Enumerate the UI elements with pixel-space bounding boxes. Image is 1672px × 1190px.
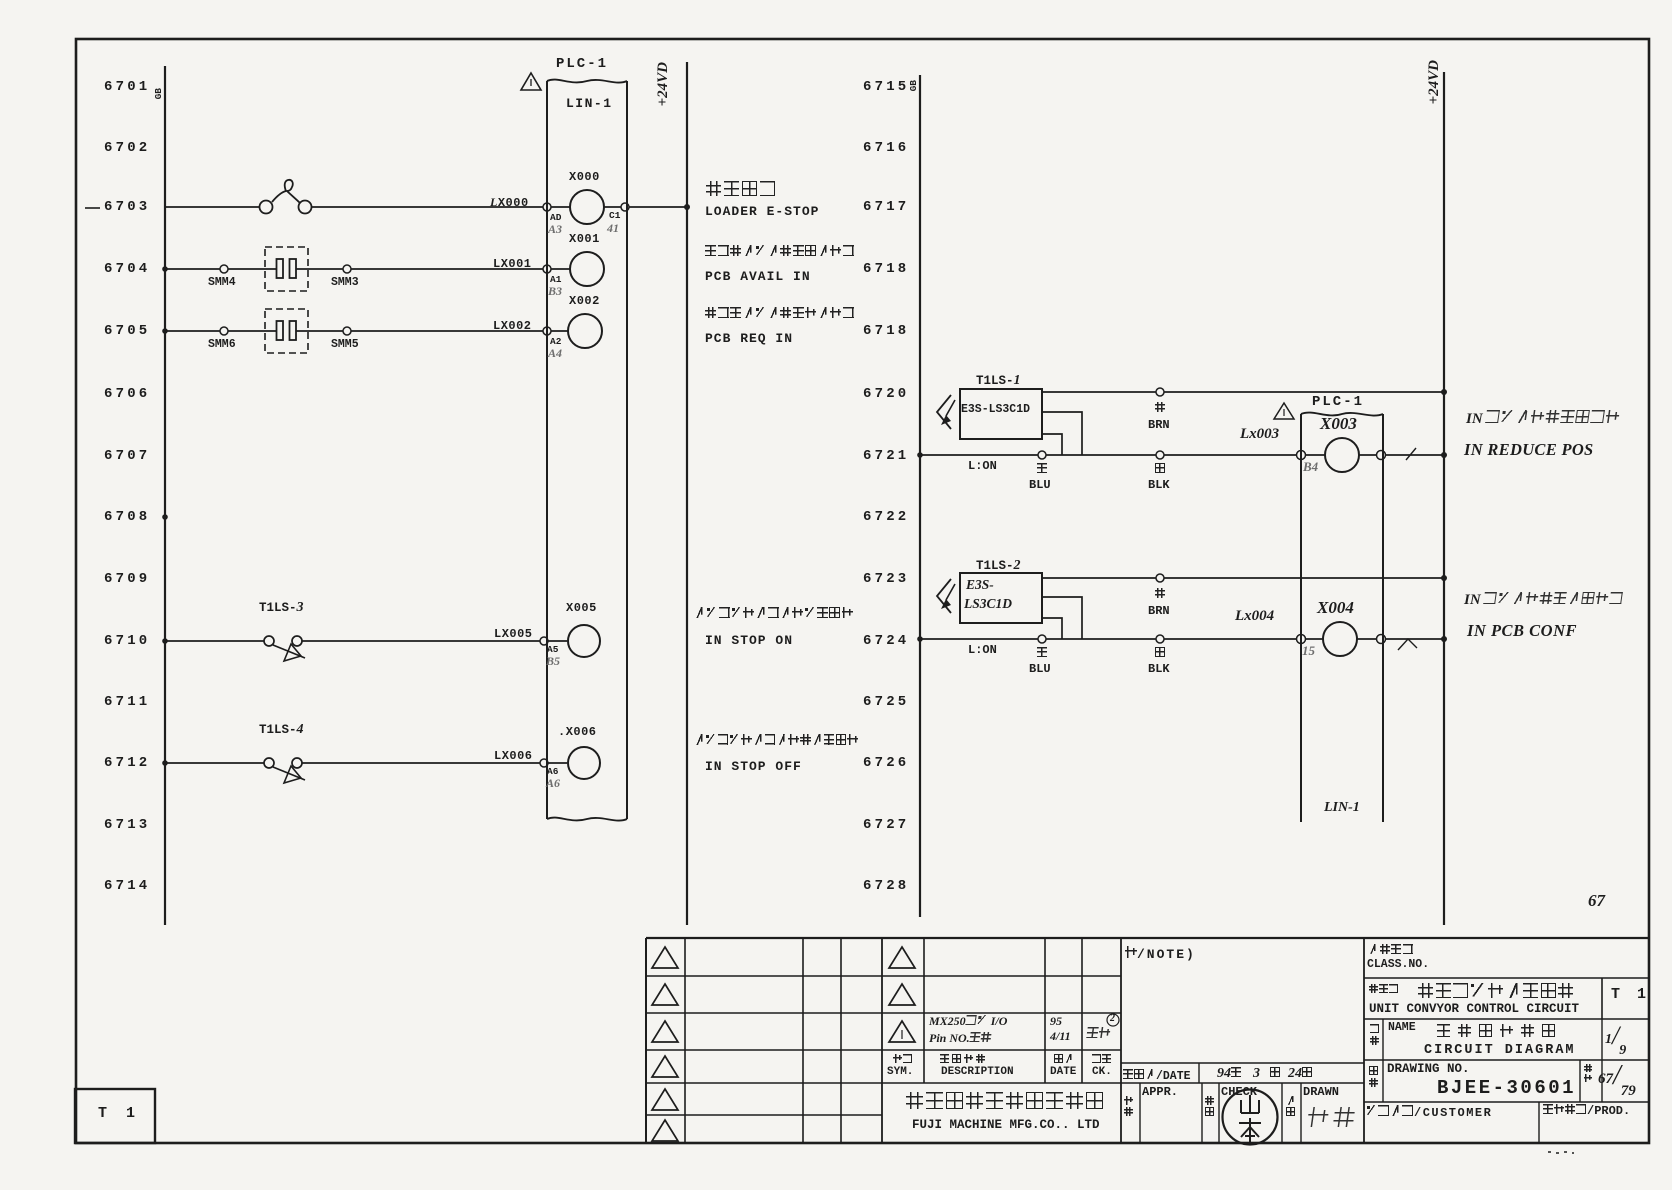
LS3C1D hw label box2 [964, 596, 1012, 612]
rev3 description hw line2 [929, 1031, 992, 1046]
connector pins 6705 [277, 321, 284, 340]
rung number 6713 [104, 817, 150, 833]
emergency stop contact circles [260, 201, 273, 214]
wire T1LS-4 to PLC [302, 762, 540, 764]
terminal label A2 [550, 336, 561, 347]
wire C1 to +24VD rail [629, 206, 687, 208]
LX003 hw label [1240, 426, 1279, 443]
T1LS-1 sensor box [960, 389, 1042, 439]
circuit diagram JP [1437, 1024, 1563, 1037]
terminal label A5 [547, 644, 558, 655]
header DESCRIPTION [941, 1066, 1014, 1078]
T1LS-2 label [976, 558, 1021, 574]
SMM4 label [208, 276, 236, 289]
junction dot 6723 rail [1441, 575, 1447, 581]
junction dot 6720 rail [1441, 389, 1447, 395]
wire rung 6703 left [165, 206, 260, 208]
right block row lines [1364, 977, 1649, 979]
terminal hw A3 [548, 222, 562, 237]
connector dashed box 6705 [265, 309, 308, 353]
dash left of 6703 [85, 207, 100, 209]
rung number 6715 [863, 79, 909, 95]
rev3 date hw [1050, 1014, 1071, 1044]
revision triangle A4 [652, 1056, 678, 1077]
rung number 6724 [863, 633, 909, 649]
T1 sheet label [98, 1105, 140, 1122]
wire SMM6 to connector [228, 330, 277, 332]
annotation IN PCB CONF [1467, 621, 1577, 641]
SMM6 label [208, 338, 236, 351]
terminal A2 circle [543, 327, 551, 335]
rung number 6702 [104, 140, 150, 156]
L:ON label 1 [968, 459, 997, 473]
JP cha 2 [1155, 588, 1167, 598]
company name JP [906, 1092, 1106, 1109]
date row value [1217, 1064, 1312, 1082]
terminal label AD [550, 212, 561, 223]
+24VD label right [1426, 60, 1443, 104]
terminal hw A4 [548, 346, 562, 361]
company name EN [912, 1118, 1100, 1132]
drawing number [1437, 1077, 1576, 1099]
wire X004 to terminal [1357, 638, 1377, 640]
junction dot 6705 [162, 328, 168, 334]
unit title JP [1418, 983, 1576, 998]
revision triangle A3 [652, 1021, 678, 1042]
rung number 6705 [104, 323, 150, 339]
left +24VD rail [686, 62, 688, 925]
label IN STOP OFF [705, 759, 802, 774]
sensor2 BLK wire [1042, 597, 1082, 639]
rung number 6722 [863, 509, 909, 525]
T1LS-3 limit switch [264, 636, 274, 646]
revision triangle B2 [889, 984, 915, 1005]
SMM3 contact circle [343, 265, 351, 273]
T1LS-4 label [259, 722, 304, 738]
LIN-1 label left [566, 96, 613, 111]
revision table A verticals [645, 938, 647, 1144]
sensor1 beam arrow [937, 395, 951, 429]
BRN terminal circle 6723 [1156, 574, 1164, 582]
wire to X000 coil [551, 206, 570, 208]
approval row verticals [1139, 1083, 1141, 1144]
SMM5 label [331, 338, 359, 351]
rung number 6710 [104, 633, 150, 649]
X003 hw label [1320, 414, 1357, 434]
CHECK label [1221, 1085, 1257, 1099]
sensor1 BLU wire [1042, 434, 1062, 455]
wire rung 6710 [165, 640, 264, 642]
PLC-1 box right ladder [1300, 414, 1302, 822]
JP annotation reduce pos [1466, 410, 1621, 428]
T1 cell divider [1601, 978, 1603, 1019]
terminal A1 circle [543, 265, 551, 273]
X004 coil circle [1323, 622, 1357, 656]
BRN label 2 [1148, 604, 1170, 618]
L:ON label 2 [968, 643, 997, 657]
hanko moto stroke [1239, 1118, 1261, 1142]
header kigou JP [893, 1054, 913, 1063]
B4 hw terminal [1303, 459, 1318, 475]
header tantou JP [1092, 1054, 1112, 1063]
note label [1125, 945, 1196, 963]
label LOADER E-STOP [705, 204, 819, 219]
BLU label 2 [1029, 662, 1051, 676]
X000 coil circle [570, 190, 604, 224]
header DATE [1050, 1066, 1076, 1078]
15 hw terminal [1302, 643, 1315, 659]
customer label [1366, 1103, 1492, 1121]
JP label E-stop [706, 181, 778, 196]
JP kuro 2 [1155, 647, 1167, 657]
customer row divider [1538, 1102, 1540, 1144]
revision table B verticals [923, 938, 925, 1083]
APPR. label [1142, 1085, 1178, 1099]
JP cha 1 [1155, 402, 1167, 412]
right +24VD rail [1443, 72, 1445, 925]
X005 label [566, 601, 597, 615]
X002 coil circle [568, 314, 602, 348]
wire rung 6703 to PLC [311, 206, 543, 208]
kenzu vertical JP [1205, 1096, 1214, 1116]
GB label middle rail [908, 80, 919, 91]
junction dot rail 6703 [684, 204, 690, 210]
BLK terminal circle 6721 [1156, 451, 1164, 459]
X006 coil circle [568, 747, 600, 779]
junction dot 6724 rail [917, 636, 923, 642]
rung number 6701 [104, 79, 150, 95]
meishou vertical JP [1370, 1024, 1379, 1045]
X001 coil circle [570, 252, 604, 286]
lone junction dot 6708 [162, 514, 168, 520]
JP label PCB avail [705, 245, 855, 256]
scan artifact dots bottom right [1548, 1152, 1574, 1153]
SMM4 contact circle [220, 265, 228, 273]
JP label in stop on [694, 607, 854, 618]
wire rung 6712 [165, 762, 264, 764]
X003 right terminal circle [1377, 451, 1386, 460]
T1LS-3 label [259, 600, 304, 616]
dwg row dividers [1579, 1060, 1581, 1102]
rung number 6728 [863, 878, 909, 894]
title block top edge [646, 937, 1649, 939]
BLU terminal circle 6724 [1038, 635, 1046, 643]
terminal AD circle [543, 203, 551, 211]
rung number 6712 [104, 755, 150, 771]
terminal hw B5 [546, 654, 560, 669]
junction dot 6724 right rail [1441, 636, 1447, 642]
JP ao 2 [1037, 647, 1049, 657]
rung number 6718 [863, 261, 909, 277]
terminal B4 circle PLC [1297, 451, 1306, 460]
note box divider [1363, 938, 1365, 1144]
JP ao 1 [1037, 463, 1049, 473]
hw 2 in ck circle [1110, 1013, 1115, 1024]
class no JP [1368, 944, 1414, 954]
wire 6723 BRN [1042, 577, 1444, 579]
hw 67/79 [1598, 1060, 1636, 1092]
rung number 6704 [104, 261, 150, 277]
terminal 15 circle PLC [1297, 635, 1306, 644]
hw 67 page note [1588, 891, 1605, 911]
rung number 6711 [104, 694, 150, 710]
PLC-1 label left [556, 56, 608, 72]
rung number 6709 [104, 571, 150, 587]
T1 sheet box bottom left [75, 1089, 155, 1143]
wire X000 to C1 [604, 206, 621, 208]
wire to X002 coil [551, 330, 568, 332]
NAME label [1388, 1021, 1416, 1034]
DRAWN label [1303, 1085, 1339, 1099]
terminal hw 41 [607, 221, 619, 236]
UNIT CONVYOR CONTROL CIRCUIT [1369, 1002, 1579, 1016]
name row dividers [1382, 1019, 1384, 1102]
wire to X001 coil [551, 268, 570, 270]
rung number 6720 [863, 386, 909, 402]
revision triangle B1 [889, 947, 915, 968]
handwritten check mark on wire 6721 [1406, 448, 1416, 460]
connector pins 6704 [277, 259, 284, 278]
junction dot 6710 [162, 638, 168, 644]
T1LS-2 sensor box [960, 573, 1042, 623]
header SYM. [887, 1066, 913, 1078]
rung number 6721 [863, 448, 909, 464]
revision table A row lines [646, 975, 1121, 977]
X000 label [569, 170, 600, 184]
X006 label [558, 725, 597, 739]
SMM6 contact circle [220, 327, 228, 335]
BRN label 1 [1148, 418, 1170, 432]
LIN-1 hw label [1324, 800, 1360, 816]
wire rung 6724 [920, 638, 1297, 640]
CIRCUIT DIAGRAM label [1424, 1043, 1576, 1058]
header CK. [1092, 1066, 1112, 1078]
terminal C1 circle [621, 203, 629, 211]
pagesu vertical JP [1584, 1064, 1592, 1082]
JP annotation pcb conf [1464, 591, 1624, 609]
shounin vertical JP [1124, 1096, 1133, 1116]
sensor2 beam arrow [937, 579, 951, 613]
rung number 6717 [863, 199, 909, 215]
PLC-1 label right [1312, 394, 1364, 410]
annotation IN REDUCE POS [1464, 440, 1594, 460]
revision triangle A1 [652, 947, 678, 968]
T1LS-1 label [976, 373, 1021, 389]
revision triangle B3 with 1 [889, 1021, 915, 1042]
SMM3 label [331, 276, 359, 289]
rung number 6718b [863, 323, 909, 339]
rung number 6707 [104, 448, 150, 464]
wire to +24VD rail 6724 [1385, 638, 1444, 640]
X003 coil circle [1325, 438, 1359, 472]
rung number 6708 [104, 509, 150, 525]
hanko stamp circle [1223, 1090, 1278, 1145]
PLC-1 box left ladder [546, 81, 548, 819]
JP label in stop off [694, 734, 859, 745]
wire to X006 coil [548, 762, 567, 764]
X001 label [569, 232, 600, 246]
zuban vertical JP [1369, 1066, 1378, 1087]
rung number 6725 [863, 694, 909, 710]
rung number 6716 [863, 140, 909, 156]
handwritten caret on wire 6724 [1398, 639, 1417, 650]
rung number 6706 [104, 386, 150, 402]
terminal hw B3 [548, 284, 562, 299]
LX005 label [494, 627, 533, 641]
emergency stop pigtail [272, 180, 300, 203]
warning triangle PLC-1 right [1274, 403, 1294, 419]
left ladder GB rail [164, 66, 166, 925]
label IN STOP ON [705, 633, 793, 648]
X004 right terminal circle [1377, 635, 1386, 644]
date row label [1123, 1066, 1191, 1084]
label PCB REQ IN [705, 331, 793, 346]
header teisei JP [940, 1054, 988, 1063]
terminal label C1 [609, 210, 620, 221]
wire T1LS-3 to PLC [302, 640, 540, 642]
revision triangle A2 [652, 984, 678, 1005]
wire to X004 coil [1305, 638, 1323, 640]
BLK label 2 [1148, 662, 1170, 676]
X002 label [569, 294, 600, 308]
esaka hw signature [1307, 1107, 1362, 1127]
junction dot 6704 [162, 266, 168, 272]
junction dot 6721 right rail [1441, 452, 1447, 458]
JP label PCB req [705, 307, 855, 318]
revision triangle A5 [652, 1089, 678, 1110]
CLASS.NO. label [1367, 958, 1429, 971]
BLU label 1 [1029, 478, 1051, 492]
BRN terminal circle 6720 [1156, 388, 1164, 396]
sakuzu vertical JP [1286, 1096, 1295, 1116]
terminal hw A6b [546, 776, 560, 791]
wire SMM4 to connector [228, 268, 277, 270]
wire rung 6705 [165, 330, 220, 332]
T1 cell label [1611, 986, 1650, 1003]
E3S- hw label box2 [966, 577, 994, 593]
wire X003 to terminal [1359, 454, 1377, 456]
wire SMM5 to PLC [351, 330, 543, 332]
LX000 label [490, 195, 529, 210]
wire connector to SMM5 [296, 330, 343, 332]
date row top [1121, 1062, 1364, 1064]
date label divider [1198, 1063, 1200, 1083]
terminal label A1 [550, 274, 561, 285]
CK circled 2 [1107, 1014, 1119, 1026]
rung number 6723 [863, 571, 909, 587]
BLU terminal circle 6721 [1038, 451, 1046, 459]
DRAWING NO. label [1387, 1062, 1470, 1076]
label PCB AVAIL IN [705, 269, 811, 284]
terminal A5 circle [540, 637, 548, 645]
revision triangle A6 [652, 1120, 678, 1141]
terminal A6 circle [540, 759, 548, 767]
connector dashed box 6704 [265, 247, 308, 291]
terminal label A6 [547, 766, 558, 777]
JP kuro 1 [1155, 463, 1167, 473]
LX001 label [493, 257, 532, 271]
prod label [1543, 1101, 1630, 1119]
X004 hw label [1317, 598, 1354, 618]
wire rung 6704 [165, 268, 220, 270]
rung number 6726 [863, 755, 909, 771]
rev3 ck hw [1087, 1025, 1111, 1043]
T1LS-4 limit switch [264, 758, 274, 768]
wire to X005 coil [548, 640, 567, 642]
middle ladder GB rail [919, 75, 921, 917]
X005 coil circle [568, 625, 600, 657]
BLK terminal circle 6724 [1156, 635, 1164, 643]
wire 6720 BRN [1042, 391, 1444, 393]
BLK label 1 [1148, 478, 1170, 492]
GB label left rail [153, 88, 164, 99]
wire connector to SMM3 [296, 268, 343, 270]
hanko yama stroke [1241, 1095, 1259, 1113]
rung number 6727 [863, 817, 909, 833]
rev3 description hw line1 [929, 1014, 1007, 1029]
E3S-LS3C1D label box1 [961, 403, 1030, 416]
+24VD label left [655, 62, 672, 106]
sensor2 BLU wire [1042, 618, 1062, 639]
kishu-mei JP [1369, 984, 1399, 993]
wire SMM3 to PLC [351, 268, 543, 270]
LX002 label [493, 319, 532, 333]
SMM5 contact circle [343, 327, 351, 335]
hw 1/9 [1605, 1021, 1626, 1051]
junction dot 6712 [162, 760, 168, 766]
rung number 6714 [104, 878, 150, 894]
junction dot 6721 rail [917, 452, 923, 458]
header hizuke JP [1054, 1054, 1074, 1063]
LX006 label [494, 749, 533, 763]
rung number 6703 [104, 199, 150, 215]
wire to +24VD rail 6721 [1385, 454, 1444, 456]
LX004 hw label [1235, 608, 1274, 625]
sensor1 BLK wire [1042, 412, 1082, 455]
warning triangle PLC-1 left [521, 73, 541, 90]
wire rung 6721 [920, 454, 1297, 456]
wire to X003 coil [1305, 454, 1325, 456]
